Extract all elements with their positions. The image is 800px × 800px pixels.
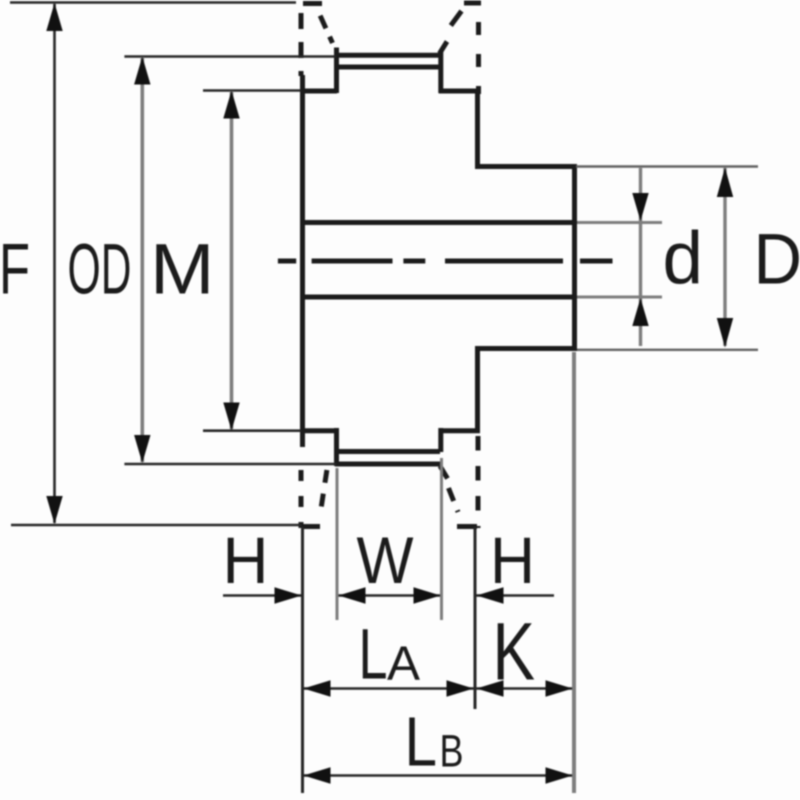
flange bottom-right inner slant xyxy=(449,488,459,512)
bore top extension line right xyxy=(577,221,662,224)
LB arrow right xyxy=(546,767,573,783)
right bottom shoulder xyxy=(439,428,480,433)
K arrow left xyxy=(477,680,504,696)
right tooth end slant top xyxy=(440,42,448,54)
H right dimension line xyxy=(476,594,554,597)
F dimension line xyxy=(53,4,56,523)
svg-text:d: d xyxy=(663,217,704,300)
flange top-right outer face xyxy=(476,22,481,94)
centerline dash-dot xyxy=(278,259,613,264)
svg-text:H: H xyxy=(223,523,269,597)
flange top-right inner slant xyxy=(446,11,462,32)
OD dimension line xyxy=(141,57,145,462)
d arrow up (below bore) xyxy=(632,298,648,326)
svg-text:H: H xyxy=(490,523,535,597)
OD top extension line xyxy=(124,55,336,58)
H right arrow left xyxy=(477,587,504,603)
bore top line xyxy=(303,220,575,225)
d dimension line xyxy=(639,168,642,346)
d arrow down (above bore) xyxy=(632,193,648,221)
svg-text:A: A xyxy=(387,638,420,691)
H left arrow right xyxy=(275,587,302,603)
svg-text:B: B xyxy=(440,726,464,777)
bore bottom extension line right xyxy=(577,296,662,299)
LB dimension line xyxy=(303,774,573,777)
LB arrow left xyxy=(304,767,331,783)
OD bottom extension line xyxy=(124,463,336,466)
flange bottom-right outer face xyxy=(476,436,481,528)
svg-text:W: W xyxy=(357,523,415,597)
W left extension line xyxy=(336,468,339,620)
bore bottom line xyxy=(303,295,575,300)
left tooth flank top xyxy=(334,48,339,94)
svg-text:OD: OD xyxy=(68,231,132,310)
W right extension line xyxy=(440,458,443,620)
svg-text:K: K xyxy=(493,607,536,698)
hub bottom shoulder xyxy=(475,346,575,351)
LA arrow right xyxy=(447,680,474,696)
tooth bottom line outer xyxy=(335,462,440,467)
svg-text:L: L xyxy=(405,703,438,781)
right top shoulder and body face xyxy=(439,91,478,164)
D dimension line xyxy=(723,168,726,346)
flange broken outline (dashed) xyxy=(301,2,481,528)
F top extension line xyxy=(10,1,296,4)
D arrow up xyxy=(717,168,733,198)
right tooth end slant bottom xyxy=(440,466,448,479)
H left dimension line xyxy=(223,594,303,597)
W arrow right xyxy=(414,587,441,603)
flange bottom-left bottom edge dash xyxy=(303,524,320,529)
tooth top line inner xyxy=(335,65,440,70)
M arrow down xyxy=(223,403,239,431)
W arrow left xyxy=(339,587,366,603)
M bottom extension line xyxy=(203,429,301,432)
pulley left face xyxy=(300,75,305,447)
left face extension line lower xyxy=(301,527,304,793)
left top shoulder xyxy=(300,89,337,94)
LA / K dimension line xyxy=(303,687,574,690)
svg-text:F: F xyxy=(0,231,30,310)
flange bottom-right bottom edge dash xyxy=(457,524,477,529)
F arrow up xyxy=(46,3,62,31)
D arrow down xyxy=(717,318,733,348)
OD arrow down xyxy=(134,435,150,463)
LA arrow left xyxy=(304,680,331,696)
OD arrow up xyxy=(134,57,150,85)
svg-text:M: M xyxy=(150,231,215,310)
F arrow down xyxy=(46,496,62,524)
svg-text:L: L xyxy=(359,616,388,695)
M dimension line xyxy=(230,91,234,429)
M arrow up xyxy=(223,91,239,119)
K arrow right xyxy=(546,680,573,696)
left bottom shoulder xyxy=(300,428,337,433)
flange top-left inner slant xyxy=(319,12,333,43)
tooth bottom line inner xyxy=(335,449,440,454)
tooth top line outer xyxy=(335,53,440,58)
right tooth flank bottom xyxy=(438,428,443,452)
right body face lower xyxy=(475,349,480,432)
M top extension line xyxy=(203,89,301,92)
hub right face xyxy=(572,164,577,351)
left tooth flank bottom xyxy=(334,428,339,466)
hub top shoulder xyxy=(475,164,575,169)
F bottom extension line xyxy=(11,524,301,527)
flange bottom-left inner slant xyxy=(321,466,328,512)
flange top-right top edge dash xyxy=(464,1,481,6)
svg-text:D: D xyxy=(754,219,800,299)
hub face extension line lower xyxy=(572,352,576,793)
gray dimension/extension lines xyxy=(142,57,725,793)
flange top-left top edge dash xyxy=(303,1,322,6)
W dimension line xyxy=(338,594,441,597)
right tooth flank top xyxy=(438,52,443,93)
flange top-left outer face xyxy=(299,2,304,76)
right toothed face extension line lower xyxy=(474,527,477,709)
flange bottom-left outer face xyxy=(299,470,304,528)
hub top extension line right xyxy=(576,165,758,167)
hub bottom extension line right xyxy=(577,349,758,351)
